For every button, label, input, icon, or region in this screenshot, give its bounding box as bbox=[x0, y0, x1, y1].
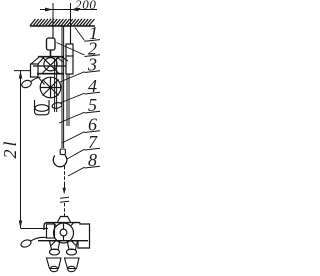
rope end hook bbox=[53, 155, 67, 166]
lower sheave (large) with cross bbox=[40, 77, 61, 98]
left rope fall (double line) bbox=[55, 58, 57, 112]
callout 4 bbox=[85, 76, 101, 96]
callout 8 bbox=[85, 150, 101, 170]
dimension 200 extension line left bbox=[52, 3, 54, 26]
right anchor plate bbox=[66, 44, 73, 74]
callout 7 bbox=[85, 132, 101, 152]
svg-text:7: 7 bbox=[88, 132, 98, 152]
lower block right plate bbox=[78, 223, 90, 248]
housing cup with thimble bbox=[35, 100, 50, 115]
lower left cup with thimble bbox=[50, 241, 60, 255]
rope end curl (upper) bbox=[21, 77, 41, 89]
right rope fall (double line) bbox=[67, 74, 69, 126]
suspension line to link bbox=[52, 26, 54, 38]
link shackle (2) bbox=[47, 38, 56, 50]
2l dimension reference line top bbox=[14, 70, 31, 72]
upper sheave (small) with cross bbox=[33, 57, 66, 73]
svg-text:4: 4 bbox=[88, 76, 97, 96]
leader line 2 bbox=[57, 43, 85, 56]
leader line 4 bbox=[60, 93, 85, 103]
rope clamp collar bbox=[60, 149, 65, 155]
leader line 5 bbox=[59, 112, 85, 123]
leader line 6 bbox=[62, 132, 85, 143]
lower right cup with thimble bbox=[67, 241, 78, 255]
leader line 7 bbox=[67, 149, 85, 159]
continuation axis dash line bbox=[64, 166, 66, 182]
upper block left wing bbox=[31, 57, 44, 64]
callout 6 bbox=[85, 115, 101, 135]
leader line 3 bbox=[60, 72, 85, 82]
leader line 1 bbox=[75, 28, 85, 41]
lower block hat bbox=[58, 217, 71, 223]
rope end curl (lower) bbox=[20, 237, 46, 248]
dimension 200 extension line right bbox=[70, 3, 72, 26]
break marks bbox=[60, 197, 69, 202]
ceiling beam bbox=[30, 19, 95, 26]
callout 3 bbox=[85, 55, 101, 75]
right thimble bbox=[52, 102, 63, 109]
callout 2 bbox=[85, 39, 101, 59]
lower block mid bar bbox=[38, 240, 88, 242]
svg-text:3: 3 bbox=[87, 55, 97, 75]
right bell with eye bbox=[65, 258, 80, 272]
left side plate bbox=[31, 64, 39, 77]
2l dimension line bbox=[19, 71, 23, 228]
axis solid segment with arrow bbox=[63, 182, 66, 195]
callout 1 bbox=[85, 23, 101, 43]
anchor line right bbox=[70, 26, 72, 44]
lower block top bar bbox=[44, 223, 80, 230]
upper block right wing bbox=[57, 57, 68, 62]
leader line 8 bbox=[68, 167, 85, 176]
callout 5 bbox=[85, 95, 101, 115]
link stem bbox=[50, 50, 52, 56]
axis to lower block bbox=[64, 203, 66, 216]
upper block mid bar bbox=[37, 73, 64, 75]
svg-text:2l: 2l bbox=[0, 138, 20, 158]
lower block left plate bbox=[47, 224, 55, 238]
hauling rope (double line) from ceiling down bbox=[62, 26, 64, 148]
2l dimension reference line bottom bbox=[21, 228, 49, 230]
svg-text:8: 8 bbox=[88, 150, 97, 170]
svg-text:5: 5 bbox=[88, 95, 97, 115]
upper block top bar bbox=[38, 56, 64, 58]
plate to sheave diagonal bbox=[38, 77, 45, 85]
svg-text:200: 200 bbox=[75, 0, 97, 12]
dimension 200 line with outside arrows bbox=[40, 8, 97, 12]
left bell with eye bbox=[47, 258, 62, 272]
lower sheave with cross and hub bbox=[51, 223, 76, 246]
